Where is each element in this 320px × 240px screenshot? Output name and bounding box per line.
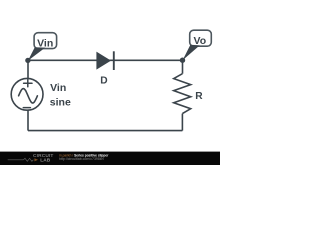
svg-text:D: D xyxy=(100,76,107,87)
svg-text:http://circuitlab.com/c7398kn: http://circuitlab.com/c7398kn xyxy=(59,157,104,161)
svg-text:Vo: Vo xyxy=(193,35,206,47)
svg-text:sine: sine xyxy=(50,97,71,109)
svg-text:R: R xyxy=(195,91,203,102)
svg-text:Vin: Vin xyxy=(50,82,66,94)
svg-text:LAB: LAB xyxy=(40,158,50,164)
svg-text:Vin: Vin xyxy=(37,38,53,50)
